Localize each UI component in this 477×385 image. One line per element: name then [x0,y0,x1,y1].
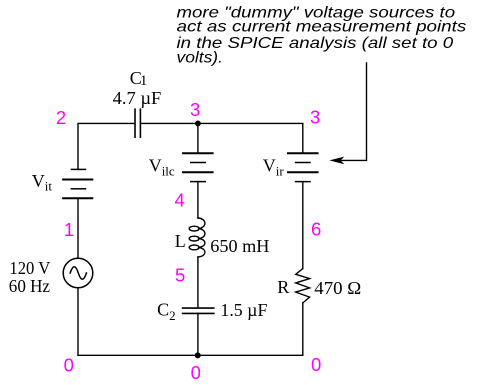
svg-text:5: 5 [175,265,185,286]
svg-text:C2: C2 [157,300,176,323]
svg-text:120 V: 120 V [9,258,50,278]
svg-text:R: R [277,277,289,297]
wire top right (C1 to node 3 right corner) [141,123,303,153]
svg-text:1.5 µF: 1.5 µF [220,300,267,320]
wire middle bottom (C2 to node 0) [197,313,199,355]
wire middle (Vilc to inductor) [197,182,199,218]
wire left middle (Vit to AC source) [77,198,79,258]
wire right bottom (resistor to node 0) [302,303,304,355]
svg-text:0: 0 [191,362,201,383]
wire middle top (node 3 to Vilc) [197,123,199,153]
svg-text:Vir: Vir [263,156,285,179]
battery Vit [62,169,93,198]
resistor R [296,269,310,303]
annotation arrow to Vir [329,63,366,164]
svg-text:1: 1 [64,219,74,240]
svg-text:650 mH: 650 mH [210,236,269,256]
battery Vir [287,153,319,181]
svg-text:0: 0 [311,354,321,375]
svg-text:Vit: Vit [32,171,53,194]
svg-text:Vilc: Vilc [149,156,175,179]
svg-text:4: 4 [175,190,185,211]
svg-text:0: 0 [64,355,74,376]
AC source V1 [63,258,93,288]
inductor L [189,218,205,257]
junction node 3 [195,121,201,127]
svg-text:4.7 µF: 4.7 µF [113,88,162,108]
wire left bottom (AC source to node 0) [77,288,79,356]
svg-text:60 Hz: 60 Hz [9,276,50,296]
label 120 V 60 Hz [9,258,51,296]
svg-text:L: L [175,231,186,251]
svg-text:3: 3 [190,99,200,120]
junction node 0 [195,352,201,358]
svg-text:6: 6 [311,219,321,240]
battery Vilc [182,153,214,181]
svg-text:2: 2 [56,107,66,128]
wire middle (inductor to C2) [197,257,199,308]
svg-text:act as current measurement poi: act as current measurement points [177,19,467,36]
svg-text:3: 3 [310,107,320,128]
svg-text:volts).: volts). [177,50,223,67]
capacitor C2 [182,308,215,313]
svg-text:470 Ω: 470 Ω [314,278,361,298]
capacitor C1 [135,108,140,138]
wire right (Vir to resistor) [302,182,304,269]
annotation text [177,5,467,67]
wire bottom (node 0 rail) [78,354,303,356]
wire top left (node 2 to C1) [78,123,135,169]
svg-text:C1: C1 [130,68,148,89]
